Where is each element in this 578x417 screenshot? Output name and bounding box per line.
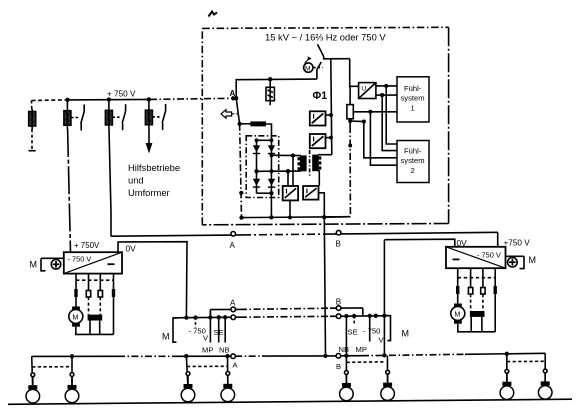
upper terminal line (train line A/B) <box>210 308 240 310</box>
svg-text:Fühl-: Fühl- <box>404 147 422 156</box>
Fuehlsystem 1 box <box>397 77 429 122</box>
junction dot <box>234 96 238 100</box>
arrow: feed to auxiliaries (down) <box>146 143 153 154</box>
fuse F2 <box>64 100 71 129</box>
wire: right converter to M bracket <box>506 255 525 257</box>
wire: V4 right to vertical <box>319 193 325 217</box>
wire: sense vertical corner to center drop <box>324 216 350 219</box>
wire: resistor tap to Fuehlsystem 1 <box>353 111 397 113</box>
dashed link W1-W2 <box>32 366 72 368</box>
wire: upper line left stub down <box>209 310 211 318</box>
dashed link W5-W6 <box>347 361 385 363</box>
pantograph mark above main box <box>209 12 218 17</box>
wire: drop to Fuehlsystem 2 (b) <box>382 95 397 151</box>
bridge column 1 <box>256 140 258 193</box>
svg-text:M: M <box>305 66 311 73</box>
wire: F2 down to left converter (dash-dot) <box>68 129 71 252</box>
svg-text:A: A <box>230 89 236 98</box>
converter box V1 <box>310 111 326 125</box>
terminal circle B <box>336 230 341 235</box>
bus terminal circle B <box>336 354 341 359</box>
bracket M lower left <box>162 318 178 342</box>
wheel W3 dropper <box>186 356 188 386</box>
wire: motor2 bottom loop <box>458 324 495 332</box>
terminal circle A <box>231 232 236 237</box>
wheels <box>26 386 552 403</box>
node A (top) dot <box>231 96 235 100</box>
diode D3 <box>253 179 260 188</box>
bracket M left converter <box>30 258 46 271</box>
diode D2 <box>268 145 275 154</box>
wheel W2 dropper <box>71 356 73 387</box>
wire: U-box output upper to Fuehlsystem 1 <box>376 85 397 87</box>
wire: transformer secondary taps down to V3 <box>287 171 289 186</box>
wheel W5 dropper <box>345 356 347 386</box>
svg-text:system: system <box>401 94 425 103</box>
wire: V2 to main vertical <box>326 137 332 139</box>
svg-text:- 750 V: - 750 V <box>477 251 501 260</box>
svg-text:Fühl-: Fühl- <box>404 84 422 93</box>
main enclosure box left edge (dash-dot) <box>201 28 203 224</box>
contact shoes and connector circles <box>28 369 549 389</box>
svg-text:M: M <box>30 260 38 270</box>
svg-text:- 750 V: - 750 V <box>68 255 92 264</box>
main enclosure box bottom edge <box>202 224 448 225</box>
wire: +750V top bus solid segment <box>68 98 151 101</box>
svg-text:system: system <box>401 156 425 165</box>
wire: sense vertical dash-dot down <box>349 126 351 217</box>
Fuehlsystem 2 box <box>397 141 429 183</box>
svg-text:1: 1 <box>411 104 415 113</box>
diode D1 <box>253 145 260 154</box>
svg-text:und: und <box>128 175 144 186</box>
switch S2 <box>71 105 84 131</box>
junction dots on bus <box>70 354 74 358</box>
bracket M lower right <box>384 316 409 341</box>
svg-text:A: A <box>230 241 236 250</box>
svg-text:Hilfsbetriebe: Hilfsbetriebe <box>128 162 180 173</box>
wire: main vertical from switch down to converters <box>331 59 332 155</box>
wire: transformer right top to main vertical <box>318 154 332 156</box>
terminal drops right group <box>345 316 347 356</box>
wheel W4 dropper <box>227 356 229 386</box>
brake resistor RB2 <box>470 311 485 317</box>
interior bottom wire <box>242 216 351 219</box>
flow direction arrow (left) <box>221 110 238 119</box>
wire: node A to riser <box>233 97 236 99</box>
svg-text:M: M <box>162 332 170 342</box>
right converter box RC <box>446 247 506 268</box>
bridge bottom wire <box>257 192 272 194</box>
junction dot on bus at F4 <box>147 97 151 101</box>
junction dot on bus at F3 <box>107 97 111 101</box>
wire: main right vertical down to bus <box>383 240 385 356</box>
wire: drop to Fuehlsystem 2 (a) <box>386 86 397 144</box>
earthing plug circle right <box>508 257 518 267</box>
wire: center vertical down to bottom bus <box>324 217 325 356</box>
brake resistor RB1 <box>88 315 103 321</box>
svg-text:2: 2 <box>411 166 415 175</box>
lower terminal line <box>173 316 240 319</box>
wire: V3 bottom to interior bottom wire <box>289 200 291 217</box>
svg-text:B: B <box>336 298 341 307</box>
svg-text:M: M <box>529 255 537 265</box>
wheel W1 dropper <box>32 356 33 387</box>
resistor R2 on sense line <box>347 86 353 126</box>
fuse F3 <box>105 100 112 129</box>
svg-text:0V: 0V <box>126 244 137 254</box>
wire: upper line right stub down <box>362 308 364 316</box>
svg-text:MP: MP <box>356 345 367 354</box>
svg-text:SE: SE <box>214 328 224 337</box>
svg-text:B: B <box>336 240 341 249</box>
svg-text:V: V <box>203 334 209 343</box>
junction dot V1 <box>329 113 333 117</box>
wire: dash-dot vertical to interior bottom <box>240 124 242 218</box>
left converter box LC <box>64 252 122 273</box>
wire: drop to Fuehlsystem 2 (d) <box>370 112 397 165</box>
rail line <box>8 399 572 404</box>
svg-text:- 750: - 750 <box>363 327 380 336</box>
wire: +750V top bus dash-dot to node A <box>150 98 233 99</box>
wire: sense line tap <box>350 120 364 123</box>
measuring transducer U-box <box>359 83 376 99</box>
wire: transformer right bottom down to V4 <box>318 171 319 186</box>
wires below left converter <box>74 274 115 335</box>
wire: bridge mid lower to transformer bottom <box>257 170 302 172</box>
inductor L1 <box>240 121 272 140</box>
svg-text:NB: NB <box>339 345 350 354</box>
wire: V1 to main vertical <box>326 114 332 116</box>
traction motor M1 <box>69 307 83 327</box>
junction dot <box>239 191 243 195</box>
svg-text:A: A <box>230 299 236 308</box>
disconnector switch blade <box>318 44 324 56</box>
terminal circle lower B <box>336 314 341 319</box>
junction dot <box>237 122 241 126</box>
wires below right converter <box>456 268 497 332</box>
bracket M right converter <box>520 255 537 269</box>
wire: F4 down to arrow <box>148 129 150 144</box>
fuse F4 <box>145 99 152 128</box>
junction dots bridge top <box>255 138 259 142</box>
label: Hilfsbetriebe und Umformer <box>128 162 180 198</box>
bus terminal circle A <box>231 354 236 359</box>
labels left group <box>189 327 230 355</box>
main enclosure box top edge (dash-dot) <box>202 27 448 28</box>
dashed link W3-W4 <box>187 365 228 367</box>
svg-text:NB: NB <box>219 346 230 355</box>
motor drive M circle <box>304 56 323 72</box>
wire: bridge mid to transformer top <box>272 154 302 156</box>
terminal circle B upper <box>336 306 341 311</box>
wheel W7 dropper <box>506 354 508 384</box>
converter box V2 <box>310 134 326 148</box>
wheel W8 dropper <box>544 353 546 383</box>
switch contact lower jaw <box>317 62 321 79</box>
wire: A/B line drop to right converter <box>497 232 499 246</box>
wire: U-box output lower to Fuehlsystem 1 <box>376 94 397 96</box>
terminal drops left group <box>195 318 197 328</box>
rectifier bridge top wire <box>257 139 272 141</box>
fuse F1 <box>29 100 36 150</box>
wire: switch line down to U-box <box>350 59 359 87</box>
terminal circle lower A <box>231 315 236 320</box>
svg-text:M: M <box>454 310 460 319</box>
svg-text:M: M <box>72 313 78 322</box>
converter box V4 <box>303 186 318 200</box>
svg-text:MP: MP <box>202 346 213 355</box>
svg-text:+ 750 V: + 750 V <box>107 90 136 99</box>
labels right group <box>339 327 385 355</box>
wire: +750V top bus dashed left segment <box>32 99 68 102</box>
wire: F3 down to A/B line corner <box>109 129 111 237</box>
wire: riser from node A up and across to switch <box>236 79 317 98</box>
wire: drop to Fuehlsystem 2 (c) <box>364 122 397 158</box>
svg-text:U: U <box>361 86 366 93</box>
junction dot at resistor R1 top <box>268 77 272 81</box>
junction dot on bus at F2 <box>65 98 69 102</box>
svg-text:SE: SE <box>348 328 358 337</box>
inner rectifier enclosure (dash-dot) <box>246 136 279 198</box>
traction motor M2 <box>451 304 465 324</box>
wire: motor bottom loop <box>76 327 114 335</box>
svg-text:+750 V: +750 V <box>504 238 531 247</box>
terminal circle A upper <box>231 307 236 312</box>
main enclosure box right edge <box>448 27 450 223</box>
wire: bridge column2 down to bottom wire <box>270 193 272 217</box>
dashed link W7-W8 <box>507 360 545 362</box>
wire: right 0V line from main right vertical <box>384 239 454 247</box>
wire: left converter to M bracket <box>41 257 64 259</box>
wire: A/B horizontal line <box>111 235 243 236</box>
resistor R1 <box>266 79 274 105</box>
wire: dash-dot vertical from node A down <box>236 98 239 124</box>
diode D4 <box>268 179 275 188</box>
svg-text:M: M <box>402 329 410 339</box>
wire: left 0V line from left converter <box>118 242 187 318</box>
svg-text:Φ1: Φ1 <box>313 90 328 102</box>
transformer core (dash-dot) <box>309 150 311 177</box>
switch S3 <box>112 104 125 130</box>
bridge column 2 <box>270 140 272 193</box>
svg-text:15 kV ~ / 16⅔ Hz oder 750 V: 15 kV ~ / 16⅔ Hz oder 750 V <box>265 32 386 43</box>
svg-text:B: B <box>336 362 341 371</box>
junction dot V2 <box>329 136 333 140</box>
svg-text:A: A <box>233 361 239 370</box>
junction dots lower line right <box>344 314 348 318</box>
svg-text:Umformer: Umformer <box>128 187 170 198</box>
svg-text:+ 750V: + 750V <box>74 241 100 250</box>
wire: switch junction to right <box>324 57 350 59</box>
wheel W6 dropper <box>386 356 388 385</box>
bottom collector bus <box>32 355 118 357</box>
transformer T1 windings <box>298 155 322 172</box>
earthing plug circle left <box>51 260 61 270</box>
converter box V3 <box>283 186 298 200</box>
switch S4 <box>152 104 165 130</box>
junction dots lower line left <box>184 315 188 319</box>
